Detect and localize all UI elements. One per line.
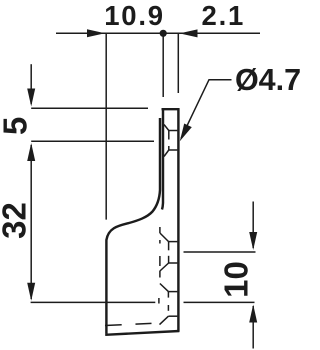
svg-text:5: 5 [0, 117, 34, 135]
svg-text:32: 32 [0, 202, 33, 239]
svg-text:10: 10 [218, 261, 255, 298]
svg-text:2.1: 2.1 [202, 0, 245, 31]
svg-text:10.9: 10.9 [104, 0, 165, 31]
svg-text:Ø4.7: Ø4.7 [235, 63, 301, 97]
